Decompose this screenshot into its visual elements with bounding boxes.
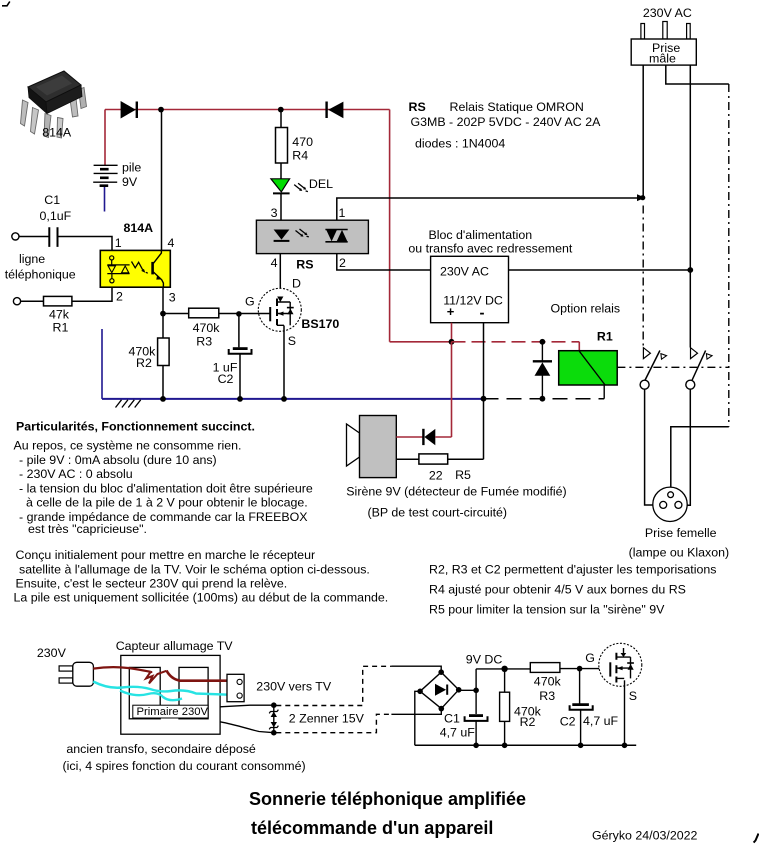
bloc d'alimentation box (431, 256, 509, 322)
RS internal triac (325, 230, 347, 242)
wire secondary to zener top (220, 705, 274, 707)
junction node pin3/R2/R3 (160, 311, 166, 317)
label ligne telephonique (5, 252, 76, 281)
junction 9VDC / R2b (501, 666, 507, 672)
wire third prong from prise male (689, 65, 691, 347)
svg-text:Sonnerie téléphonique amplifié: Sonnerie téléphonique amplifiée (249, 789, 526, 809)
svg-text:1: 1 (115, 236, 122, 250)
wire C2b vertical (579, 669, 581, 704)
svg-text:pile: pile (122, 160, 141, 174)
svg-text:R1: R1 (597, 329, 613, 343)
svg-text:2: 2 (339, 256, 346, 270)
label G bottom (585, 651, 595, 665)
svg-text:G: G (585, 651, 595, 665)
label S (288, 334, 296, 348)
svg-text:Relais Statique OMRON: Relais Statique OMRON (450, 100, 584, 114)
wire source2 to bottom rail (624, 680, 626, 745)
junction zener top (271, 702, 277, 708)
label Option relais (551, 301, 621, 315)
svg-text:230V vers TV: 230V vers TV (256, 680, 332, 694)
bridge rectifier diamond (417, 669, 461, 711)
svg-text:BS170: BS170 (301, 317, 339, 331)
label 470 R4 (292, 135, 313, 163)
svg-text:0,1uF: 0,1uF (40, 209, 72, 223)
wire secondary to zener bottom (220, 722, 274, 733)
label R1 relay (bold) (597, 329, 613, 343)
svg-text:R4 ajusté pour obtenir 4/5 V a: R4 ajusté pour obtenir 4/5 V aux bornes … (429, 583, 686, 597)
label C1 0,1uF (40, 193, 72, 223)
resistor R1 47k (44, 296, 72, 306)
wire red sirene positive (396, 436, 423, 438)
wire AC2 to bridge (391, 709, 441, 715)
wire bloc right to mains (509, 269, 691, 271)
battery pile 9V (93, 165, 117, 185)
label 230V vers TV (256, 680, 332, 694)
label 22 R5 (429, 468, 471, 483)
svg-text:814A: 814A (124, 221, 154, 235)
svg-text:Option relais: Option relais (551, 301, 621, 315)
svg-text:(lampe ou Klaxon): (lampe ou Klaxon) (629, 545, 730, 559)
svg-text:S: S (288, 334, 296, 348)
svg-text:ancien transfo, secondaire dép: ancien transfo, secondaire déposé (66, 742, 256, 756)
resistor R4 470 (276, 128, 288, 164)
label 230V AC in bloc (440, 264, 489, 278)
connector 230V vers TV (227, 674, 244, 701)
wire C1 to opto pin1 (59, 237, 113, 251)
switch B fixed contact (691, 348, 698, 359)
diode D2 top right 1N4004 (327, 102, 344, 119)
svg-text:diodes : 1N4004: diodes : 1N4004 (415, 137, 505, 151)
wire red plus output (451, 323, 453, 342)
label Capteur allumage TV (116, 639, 234, 653)
resistor R2 470k (158, 338, 170, 366)
capacitor C1b 4,7uF (465, 716, 488, 721)
label Bloc d'alimentation (408, 228, 572, 256)
svg-text:R5 pour limiter la tension sur: R5 pour limiter la tension sur la "sirèn… (429, 603, 665, 617)
wire black minus output (483, 323, 485, 460)
label 11/12V DC (443, 294, 503, 308)
svg-text:470k: 470k (534, 675, 562, 689)
wire relay coil bottom to minus (603, 385, 605, 399)
RS internal light arrows (296, 229, 309, 237)
wire dash-dot right vertical (728, 84, 730, 427)
resistor R2b 470k (500, 692, 510, 721)
wire switch A to prise femelle (645, 389, 660, 505)
svg-text:C1: C1 (444, 711, 460, 725)
svg-text:satellite à l'allumage de la T: satellite à l'allumage de la TV. Voir le… (19, 562, 370, 576)
label G3MB-202P (411, 115, 602, 129)
wire maroon primary top (93, 667, 227, 683)
wire C2b to bottom rail (580, 710, 582, 746)
svg-text:Sirène 9V (détecteur de Fumée: Sirène 9V (détecteur de Fumée modifié) (346, 484, 566, 498)
svg-text:-: - (480, 304, 485, 321)
wire RS pin2 to bloc input (337, 254, 431, 270)
wire R2b top (504, 669, 506, 692)
label pile 9V (122, 160, 141, 189)
svg-text:47k: 47k (49, 308, 70, 322)
wire neutral middle from prise male (666, 65, 729, 84)
capacitor C2b 4,7uF (570, 705, 593, 710)
terminal circle line telephonique top (12, 233, 19, 240)
svg-text:- pile 9V : 0mA absolu (dure 1: - pile 9V : 0mA absolu (dure 10 ans) (19, 453, 217, 467)
wire terminal to C1 (19, 236, 49, 238)
svg-text:R3: R3 (539, 689, 555, 703)
optocoupler U1 814A body (100, 250, 170, 287)
pin 3 label RS (271, 206, 278, 220)
paragraph Concu initialement (14, 548, 389, 605)
switch A pivot circle (640, 380, 649, 389)
wire red bloc to junction (390, 341, 452, 343)
svg-text:D: D (292, 276, 301, 290)
solid state relay RS body (256, 220, 368, 253)
sirene speaker cone (347, 424, 360, 466)
opto pin 1 label (115, 236, 122, 250)
svg-text:RS: RS (296, 257, 313, 271)
svg-text:à celle de la pile de 1 à 2 V: à celle de la pile de 1 à 2 V pour obten… (26, 496, 308, 510)
wire red into relay coil (578, 342, 580, 351)
svg-text:470: 470 (292, 135, 313, 149)
svg-text:230V: 230V (37, 646, 67, 660)
svg-text:C1: C1 (44, 193, 60, 207)
svg-text:4,7 uF: 4,7 uF (440, 726, 476, 740)
wire R5 to minus (448, 458, 484, 460)
label 814A (bold) (124, 221, 154, 235)
svg-text:4: 4 (168, 236, 175, 250)
label Sirene 9V (346, 484, 566, 498)
junction node battery/opto pin4 (158, 107, 164, 113)
wire 9VDC riser (476, 669, 530, 690)
svg-text:RS: RS (409, 100, 426, 114)
paragraph Particularites (14, 420, 313, 537)
label 1 uF C2 (213, 361, 238, 386)
wire red dashed plus to relay R1 (452, 341, 580, 343)
svg-text:Au repos, ce système ne consom: Au repos, ce système ne consomme rien. (14, 439, 242, 453)
svg-text:- 230V AC : 0 absolu: - 230V AC : 0 absolu (19, 467, 133, 481)
switch A fixed contact (643, 348, 650, 359)
label ici 4 spires (63, 759, 306, 773)
sirene body box (360, 416, 397, 478)
svg-text:R2, R3 et C2 permettent d'a: R2, R3 et C2 permettent d'ajuster les te… (429, 563, 716, 577)
svg-text:G3MB - 202P 5VDC - 240V AC 2A: G3MB - 202P 5VDC - 240V AC 2A (411, 115, 602, 129)
title Sonnerie telephonique (249, 789, 526, 838)
label C2 4,7uF bottom (560, 714, 619, 729)
label Prise male (649, 41, 680, 66)
svg-text:Bloc d'alimentation: Bloc d'alimentation (429, 228, 533, 242)
svg-text:C2: C2 (218, 372, 234, 386)
junction node R4 top (278, 107, 284, 113)
svg-text:3: 3 (271, 206, 278, 220)
wire opto pin3 to gate node (162, 287, 164, 313)
wire node to R3 (163, 313, 189, 315)
wire switch B to prise femelle (682, 389, 690, 505)
diode D3 freewheel (533, 344, 552, 399)
junction source/ground (281, 396, 287, 402)
label 230V AC top (643, 6, 692, 20)
label 230V bottom (37, 646, 67, 660)
wire RS pin1 to mains (337, 198, 643, 220)
label 9V DC (466, 653, 503, 667)
opto pin 3 label (169, 291, 176, 305)
svg-text:230V AC: 230V AC (643, 6, 692, 20)
junction diode D3 top (540, 339, 546, 345)
svg-text:9V DC: 9V DC (466, 653, 503, 667)
wire MOSFET source to ground (283, 326, 285, 399)
pin 4 label RS (271, 256, 278, 270)
svg-text:Primaire 230V: Primaire 230V (137, 706, 209, 718)
label ancien transfo (66, 742, 256, 756)
svg-text:R2: R2 (520, 715, 536, 729)
switch B blade (692, 351, 712, 382)
LED DEL green (271, 179, 308, 194)
wire R1 to opto pin2 (72, 287, 112, 301)
paragraph R2 R3 C2 notes (429, 563, 716, 617)
label C1 4,7uF (440, 711, 476, 739)
label diodes 1N4004 (415, 137, 505, 151)
junction gate2/C2b (577, 666, 583, 672)
corner tick mark top-left (2, 2, 10, 6)
svg-text:470k: 470k (193, 321, 221, 335)
label RS Relais Statique OMRON (409, 100, 584, 114)
junction node gate/C2 (236, 311, 242, 317)
wire RS pin4 to MOSFET drain (279, 254, 281, 298)
junction phase/RS pin1 (637, 194, 645, 201)
svg-text:est très "capricieuse".: est très "capricieuse". (28, 522, 147, 536)
svg-text:- la tension du bloc d'aliment: - la tension du bloc d'alimentation doit… (19, 481, 313, 495)
junction C2/ground (237, 396, 243, 402)
junction C1 top (473, 688, 479, 694)
label DEL (309, 177, 333, 191)
wire phase left from prise male (642, 65, 644, 197)
svg-text:Géryko 24/03/2022: Géryko 24/03/2022 (592, 829, 698, 843)
svg-text:Particularités, Fonctionnement: Particularités, Fonctionnement succinct. (16, 420, 255, 434)
svg-text:1: 1 (339, 206, 346, 220)
wire dash-dot relay linkage (617, 366, 728, 368)
wire LED to RS pin3 (280, 193, 282, 220)
wire C1 to bottom rail (475, 720, 477, 745)
wire bottom ground rail (415, 744, 636, 746)
wire terminal to R1 (21, 300, 44, 302)
svg-text:+: + (447, 304, 455, 319)
wire R3b to gate2 (560, 668, 611, 670)
wire opto pin4 to rail (161, 110, 163, 251)
wire R2 top (162, 314, 164, 339)
resistor R3b 470k (530, 663, 560, 673)
prise male body (631, 39, 696, 65)
label 470k R2 bottom (514, 705, 542, 729)
wire sirene negative to R5 (396, 458, 419, 460)
diode D4 sirene (423, 429, 435, 445)
transistor Q1 BS170 (258, 288, 301, 331)
junction C1/rail (473, 743, 479, 749)
wire cyan primary bottom (93, 682, 232, 701)
label D (292, 276, 301, 290)
wire R3 to gate (219, 313, 270, 315)
svg-text:DEL: DEL (309, 177, 333, 191)
svg-text:C2: C2 (560, 715, 576, 729)
svg-text:ligne: ligne (19, 252, 45, 266)
resistor R5 22 (419, 454, 448, 464)
label BP de test (368, 506, 508, 520)
signature Geryko (592, 829, 698, 843)
svg-text:S: S (629, 689, 637, 703)
wire earth to prise femelle (671, 427, 729, 492)
svg-text:230V AC: 230V AC (440, 264, 489, 278)
junction plus node (449, 339, 455, 345)
svg-text:ou transfo avec redressement: ou transfo avec redressement (408, 242, 572, 256)
wire red battery positive to top rail (104, 110, 106, 166)
RS internal input LED (274, 230, 290, 241)
pin 1 label RS (339, 206, 346, 220)
label RS (bold) (296, 257, 313, 271)
svg-text:3: 3 (169, 291, 176, 305)
wire bridge minus to bottom rail (415, 691, 420, 745)
junction minus/ground (481, 396, 487, 402)
label S bottom (629, 689, 637, 703)
ground symbol hatch (116, 400, 141, 408)
switch A blade (645, 351, 667, 382)
junction C2b/rail (578, 743, 584, 749)
svg-text:4,7 uF: 4,7 uF (583, 714, 619, 728)
capacitor C2 1uF (229, 349, 252, 354)
junction R2/ground (160, 396, 166, 402)
junction diode D3 bottom (540, 396, 546, 402)
svg-text:R4: R4 (292, 149, 308, 163)
svg-text:R1: R1 (53, 321, 69, 335)
relay R1 coil green box (559, 351, 618, 385)
opto pin 2 label (116, 289, 123, 303)
svg-text:R3: R3 (196, 335, 212, 349)
junction bloc/mains (687, 267, 693, 273)
transformer left bobbin (129, 667, 160, 718)
capacitor C1 0,1uF (49, 227, 57, 247)
wire R2 to ground (162, 366, 164, 399)
svg-text:télécommande d'un appareil: télécommande d'un appareil (251, 818, 493, 838)
wire R4 to LED (280, 163, 282, 179)
transistor Q2 MOSFET bottom (599, 643, 642, 686)
svg-text:téléphonique: téléphonique (5, 267, 76, 281)
prise male plug pins (641, 22, 690, 40)
zener diodes 2x 15V (269, 705, 278, 733)
wire red diode to plus junction (435, 342, 451, 437)
transformer right bobbin (179, 667, 208, 718)
label 47k R1 (49, 308, 70, 335)
prise femelle socket (653, 487, 687, 521)
wire blue left ground riser (101, 329, 103, 399)
svg-text:R2: R2 (136, 356, 152, 370)
wire dash-dot phase to switch A (642, 206, 644, 348)
opto internal antiparallel LEDs (107, 256, 129, 283)
wire bridge plus to 9VDC (459, 689, 476, 691)
label 470k R2 (129, 345, 157, 370)
wire C1 vertical (475, 690, 477, 714)
svg-text:(ici, 4 spires fonction du cou: (ici, 4 spires fonction du courant conso… (63, 759, 306, 773)
label plus terminal (447, 304, 455, 319)
svg-text:La pile est uniquement sollici: La pile est uniquement sollicitée (100ms… (14, 591, 389, 605)
corner tick mark bottom-right (754, 834, 759, 843)
photo of 814A optocoupler DIP package (21, 71, 87, 138)
label BS170 (301, 317, 339, 331)
label lampe ou Klaxon (629, 545, 730, 559)
svg-text:Capteur allumage TV: Capteur allumage TV (116, 639, 234, 653)
svg-text:4: 4 (271, 256, 278, 270)
wire dashed zener bottom to bridge (276, 714, 391, 732)
switch B pivot circle (686, 380, 695, 389)
wire red right vertical to bloc output (389, 110, 391, 342)
wire blue ground rail (102, 398, 484, 400)
label 470k R3 bottom (534, 675, 562, 703)
diode D1 top left 1N4004 (121, 101, 137, 119)
label minus terminal (480, 304, 485, 321)
svg-text:2: 2 (116, 289, 123, 303)
svg-text:22: 22 (429, 469, 443, 483)
svg-text:Prise femelle: Prise femelle (645, 526, 717, 540)
wire AC1 to bridge (391, 666, 441, 672)
label 470k R3 (193, 321, 221, 349)
wire red top supply rail (105, 109, 390, 111)
svg-text:G: G (245, 295, 255, 309)
svg-text:R5: R5 (455, 468, 471, 482)
label 814A (photo) (42, 125, 72, 139)
wire C2 to ground (239, 354, 241, 399)
svg-text:Ensuite, c'est le secteur 230V: Ensuite, c'est le secteur 230V qui prend… (16, 577, 288, 591)
svg-text:814A: 814A (42, 125, 72, 139)
wire C2 top (238, 314, 240, 347)
label 2 Zenner 15V (289, 712, 365, 726)
wire R4 top (280, 110, 282, 128)
wire blue battery negative stub (104, 187, 106, 212)
label Prise femelle (645, 526, 717, 540)
plug 230V body (73, 662, 94, 686)
wire black dashed minus to relay (484, 398, 605, 400)
label G (245, 295, 255, 309)
svg-text:2 Zenner 15V: 2 Zenner 15V (289, 712, 365, 726)
wire dashed zener top to bridge (276, 666, 391, 705)
opto internal light zigzag arrow (132, 262, 148, 274)
pin 2 label RS (339, 256, 346, 270)
plug 230V prongs (59, 666, 73, 683)
svg-text:(BP de test court-circuité): (BP de test court-circuité) (368, 506, 508, 520)
opto pin 4 label (168, 236, 175, 250)
svg-text:9V: 9V (122, 175, 138, 189)
junction R2b/rail (502, 743, 508, 749)
svg-text:Conçu initialement pour mettre: Conçu initialement pour mettre en marche… (16, 548, 316, 562)
transformer outer frame (121, 655, 220, 734)
wire R2b to bottom rail (504, 721, 506, 745)
opto internal phototransistor (153, 250, 164, 287)
resistor R3 470k (189, 308, 219, 318)
junction zener bottom (271, 730, 277, 736)
junction source2/rail (622, 743, 628, 749)
svg-text:mâle: mâle (649, 52, 676, 66)
primaire 230V label box (133, 705, 209, 718)
terminal circle line telephonique bottom (13, 298, 20, 305)
